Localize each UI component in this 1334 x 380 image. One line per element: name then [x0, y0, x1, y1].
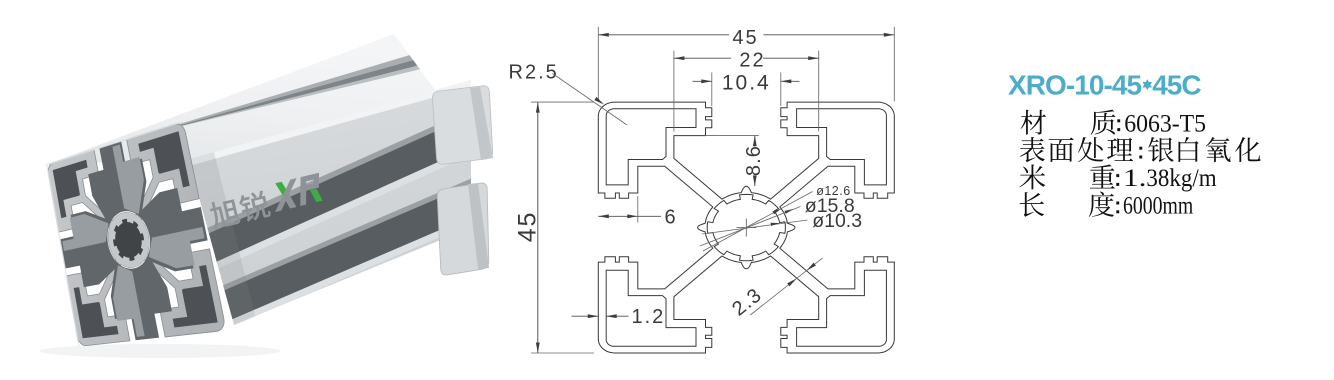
spec line 1: material 6063-T5 [1021, 110, 1046, 135]
svg-text:10.4: 10.4 [722, 71, 771, 94]
dimension 8.6 (lip bottom to boss top) [706, 135, 759, 137]
spec line 3: weight per meter 1.38kg/m [1020, 165, 1046, 190]
end face corner cavities [53, 160, 88, 218]
svg-text:45: 45 [732, 27, 758, 49]
side face slot groove 2 [223, 179, 471, 291]
svg-text:6000mm: 6000mm [1123, 193, 1194, 220]
far tab shading [470, 87, 493, 160]
profile outer contour (45x45 cross-section with T-slots, webs, center boss) [598, 102, 894, 353]
svg-text:6: 6 [665, 207, 678, 229]
end face edge highlight [47, 121, 183, 346]
center hole with 8 grooves [707, 194, 785, 260]
bar top face [47, 34, 436, 165]
drop shadow [40, 344, 280, 358]
bar side face [189, 80, 472, 325]
svg-text:45: 45 [513, 211, 541, 242]
svg-text:6063-T5: 6063-T5 [1124, 110, 1206, 137]
leader dia 12.6 (boss OD) [703, 192, 813, 252]
dimension 10.4 (slot opening) [711, 73, 713, 107]
logo XuRui XR printed on side face [207, 172, 330, 231]
corner block inner cavity 2 [797, 109, 887, 185]
end face slot voids [88, 141, 146, 226]
end face (cross-section cut) [48, 124, 224, 346]
svg-text:22: 22 [739, 50, 765, 72]
dimension 45 (left height) [531, 101, 594, 103]
side face near-edge shading [189, 152, 256, 325]
end face boss ring [108, 212, 149, 267]
dimension 22 (slot cavity width) [673, 51, 675, 132]
dimension 2.3 (web thickness) [750, 258, 822, 315]
end face slot void lit walls [112, 145, 143, 215]
spec line 4: length 6000mm [1020, 192, 1045, 217]
svg-text:8.6: 8.6 [743, 145, 765, 176]
top face T-slot groove [95, 55, 414, 149]
center mark [745, 219, 747, 237]
svg-text:R2.5: R2.5 [509, 61, 559, 83]
svg-text:1.2: 1.2 [632, 306, 666, 328]
svg-text:1.: 1. [1123, 165, 1146, 192]
svg-text:38kg/m: 38kg/m [1146, 165, 1217, 192]
corner block inner cavity 3 [797, 270, 887, 346]
far end cross-section tabs [432, 86, 492, 164]
leader dia 10.3 (center hole) [702, 220, 808, 234]
spec line 2: surface treatment silver white anodized [1020, 137, 1045, 162]
svg-text:ø10.3: ø10.3 [812, 210, 862, 232]
svg-text:45C: 45C [1152, 70, 1201, 101]
dimension 6 (lip depth) [637, 196, 639, 223]
end face splined hole [113, 219, 144, 261]
side face front edge highlight [189, 80, 472, 166]
dimension 1.2 (wall thickness) [572, 315, 599, 317]
leader dia 15.8 (nub envelope) [700, 207, 801, 247]
side face slot groove 1 [207, 109, 471, 233]
svg-text:XRO-10-45: XRO-10-45 [1008, 70, 1141, 101]
corner block inner cavity 1 [606, 109, 696, 185]
corner block inner cavity 4 [606, 270, 696, 346]
dimension 45 (top width) [597, 27, 599, 102]
